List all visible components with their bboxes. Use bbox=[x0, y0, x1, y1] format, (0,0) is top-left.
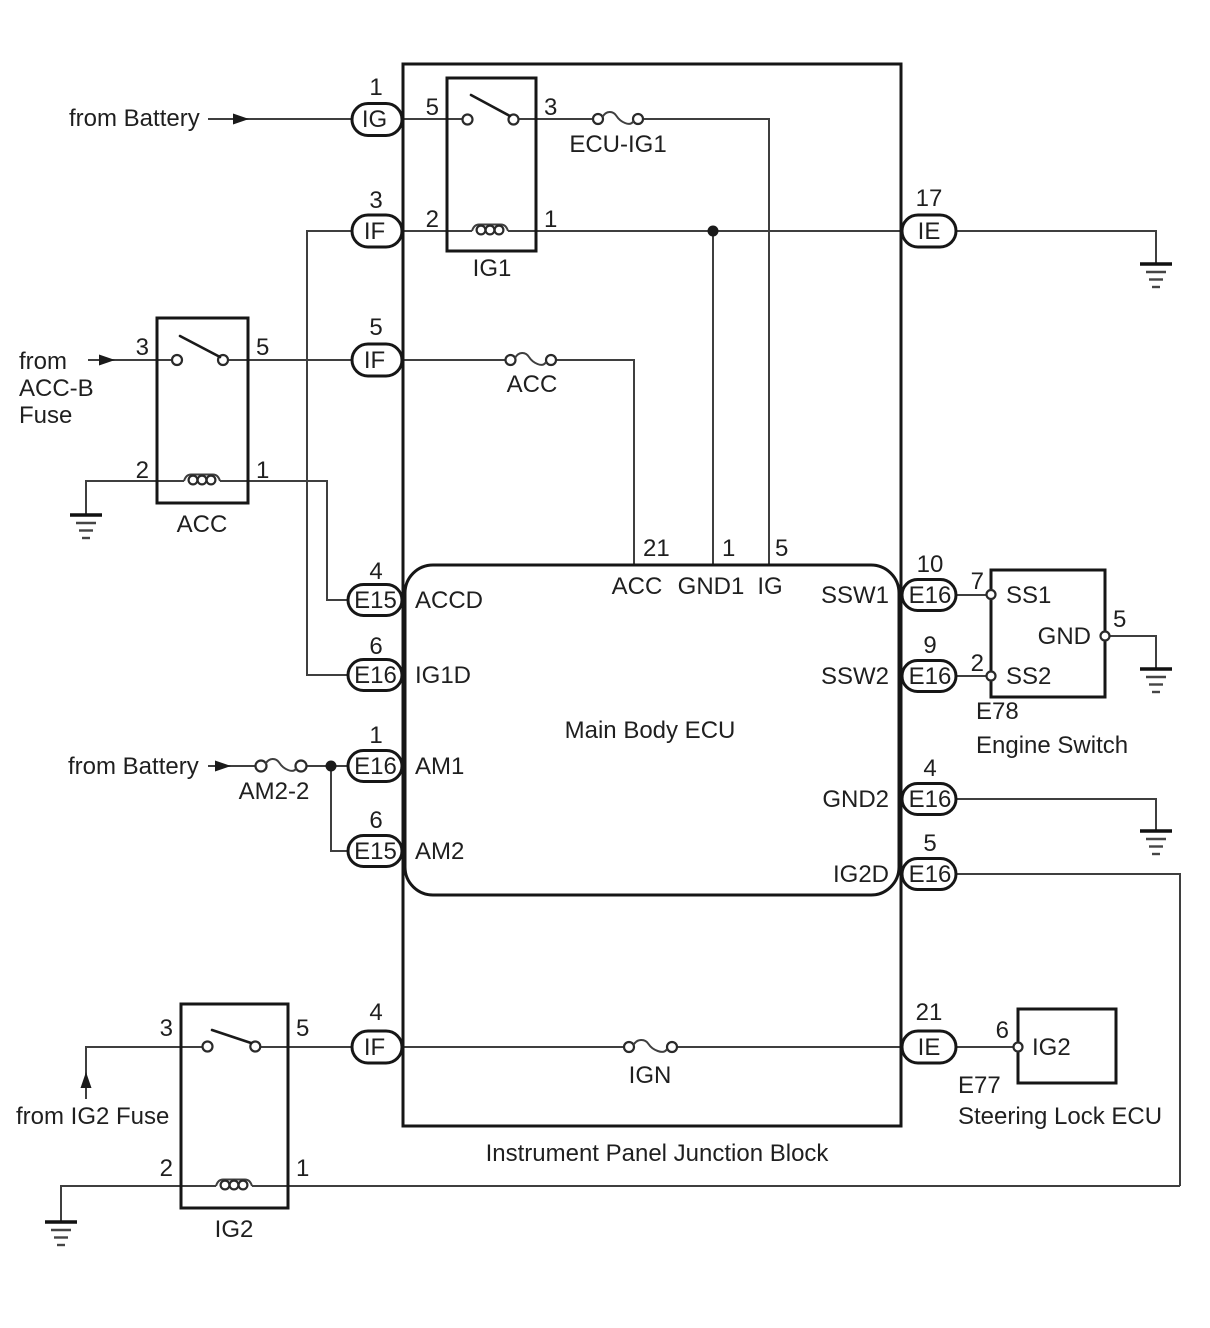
wire: IE(17) to ground bbox=[956, 231, 1156, 264]
svg-text:IF: IF bbox=[364, 218, 385, 245]
svg-text:Engine Switch: Engine Switch bbox=[976, 732, 1128, 759]
svg-text:2: 2 bbox=[971, 650, 984, 677]
svg-text:1: 1 bbox=[369, 74, 382, 101]
connector oval E16 pin 4 (GND2) bbox=[902, 755, 956, 815]
Instrument Panel Junction Block outline bbox=[403, 64, 901, 1126]
svg-text:IG: IG bbox=[362, 106, 387, 133]
svg-text:Steering Lock ECU: Steering Lock ECU bbox=[958, 1103, 1162, 1130]
svg-text:3: 3 bbox=[544, 94, 557, 121]
svg-text:2: 2 bbox=[160, 1155, 173, 1182]
connector oval E15 pin 6 (AM2) bbox=[348, 807, 402, 867]
svg-text:E15: E15 bbox=[354, 587, 397, 614]
relay ACC contact circles bbox=[172, 355, 182, 365]
relay ACC box bbox=[157, 318, 248, 503]
svg-text:from IG2 Fuse: from IG2 Fuse bbox=[16, 1103, 169, 1130]
svg-text:IG1D: IG1D bbox=[415, 662, 471, 689]
connector oval IE pin 21 bbox=[902, 999, 956, 1063]
connector oval IF pin 5 bbox=[352, 314, 402, 376]
svg-text:ACC: ACC bbox=[177, 511, 228, 538]
svg-text:3: 3 bbox=[136, 334, 149, 361]
svg-text:6: 6 bbox=[996, 1017, 1009, 1044]
fuse ECU-IG1 bbox=[569, 112, 666, 158]
svg-text:ACC: ACC bbox=[507, 371, 558, 398]
wire: fuse IGN to IE(21) oval bbox=[678, 1046, 904, 1048]
connector oval E16 pin 6 (IG1D) bbox=[348, 633, 402, 691]
svg-text:21: 21 bbox=[643, 535, 670, 562]
svg-text:Instrument Panel Junction Bloc: Instrument Panel Junction Block bbox=[486, 1140, 830, 1167]
svg-text:4: 4 bbox=[923, 755, 936, 782]
connector oval IF pin 3 bbox=[352, 187, 402, 247]
Main Body ECU outline bbox=[405, 565, 899, 895]
connector oval E16 pin 10 (SSW1) bbox=[902, 551, 956, 611]
svg-text:1: 1 bbox=[369, 722, 382, 749]
svg-text:E77: E77 bbox=[958, 1072, 1001, 1099]
fuse AM2-2 bbox=[239, 759, 310, 805]
ground under ACC relay bbox=[70, 515, 102, 538]
wire: E78 GND pin 5 to ground bbox=[1110, 636, 1156, 669]
relay ACC coil bbox=[184, 475, 220, 485]
svg-text:1: 1 bbox=[544, 206, 557, 233]
svg-text:21: 21 bbox=[916, 999, 943, 1026]
svg-text:AM1: AM1 bbox=[415, 753, 464, 780]
wire: IF(5) oval to fuse ACC bbox=[403, 359, 506, 361]
svg-text:2: 2 bbox=[136, 457, 149, 484]
svg-text:5: 5 bbox=[426, 94, 439, 121]
relay IG2 switch blade bbox=[212, 1030, 251, 1043]
svg-text:E16: E16 bbox=[909, 663, 952, 690]
ground under IG2 relay bbox=[45, 1222, 77, 1245]
connector oval IG pin 1 bbox=[352, 74, 402, 136]
connector oval E15 pin 4 (ACCD) bbox=[348, 558, 402, 616]
svg-text:IE: IE bbox=[918, 1034, 941, 1061]
svg-text:1: 1 bbox=[256, 457, 269, 484]
wire: GND1 vertical to ECU top bbox=[712, 231, 714, 564]
svg-text:ACC-B: ACC-B bbox=[19, 375, 94, 402]
wire: branch to E15 AM2 bbox=[331, 766, 348, 851]
connector oval IE pin 17 bbox=[902, 185, 956, 247]
E77 Steering Lock ECU box bbox=[958, 1009, 1162, 1130]
svg-text:4: 4 bbox=[369, 558, 382, 585]
svg-text:5: 5 bbox=[923, 830, 936, 857]
svg-text:6: 6 bbox=[369, 807, 382, 834]
wire: fuse ECU-IG1 to IG net corner, down to ECU pin IG bbox=[643, 119, 769, 564]
svg-text:ECU-IG1: ECU-IG1 bbox=[569, 131, 666, 158]
svg-text:E16: E16 bbox=[909, 582, 952, 609]
connector oval IF pin 4 (bottom) bbox=[352, 999, 402, 1063]
E78 Engine Switch box bbox=[971, 568, 1128, 759]
ground after E78 GND bbox=[1140, 669, 1172, 692]
wire: IF(3) oval left to IG1D E16 bbox=[307, 231, 352, 675]
svg-text:6: 6 bbox=[369, 633, 382, 660]
wire: IG1 contact 3 to fuse ECU-IG1 bbox=[519, 118, 594, 120]
svg-text:2: 2 bbox=[426, 206, 439, 233]
svg-text:7: 7 bbox=[971, 568, 984, 595]
svg-text:9: 9 bbox=[923, 632, 936, 659]
fuse ACC bbox=[506, 353, 558, 398]
wire: from ACC-B Fuse to ACC relay contact 3 bbox=[88, 359, 172, 361]
svg-text:IG1: IG1 bbox=[473, 255, 512, 282]
relay IG2 box bbox=[181, 1004, 288, 1208]
wire: fuse ACC to ECU pin ACC (21) bbox=[556, 360, 634, 564]
wire: IG2D E16 to IG2 relay coil pin 1 bbox=[956, 874, 1180, 1186]
wire: SSW2 E16 to E78 pin 2 bbox=[956, 675, 987, 677]
svg-text:5: 5 bbox=[775, 535, 788, 562]
wire: IF(3) oval to IG1 coil pin 2 bbox=[403, 230, 472, 232]
relay IG1 coil bbox=[472, 225, 508, 235]
svg-text:SSW1: SSW1 bbox=[821, 582, 889, 609]
svg-text:E16: E16 bbox=[909, 861, 952, 888]
node: junction dot GND1 bbox=[708, 226, 719, 237]
ground after IE(17) bbox=[1140, 264, 1172, 287]
wire: IG1 coil pin 1 to IE(17) oval bbox=[508, 230, 903, 232]
wire: IG oval to IG1 relay contact 5 bbox=[403, 118, 463, 120]
svg-text:5: 5 bbox=[1113, 606, 1126, 633]
wire: ACC coil pin 2 to ground bbox=[86, 481, 184, 515]
svg-text:ACC: ACC bbox=[612, 573, 663, 600]
wire: IG2 coil pin 1 to IG2D net bbox=[252, 1185, 1180, 1187]
svg-text:E15: E15 bbox=[354, 838, 397, 865]
arrow up from IG2 Fuse bbox=[81, 1072, 92, 1088]
svg-text:from: from bbox=[19, 348, 67, 375]
svg-text:ACCD: ACCD bbox=[415, 587, 483, 614]
svg-text:IGN: IGN bbox=[629, 1062, 672, 1089]
svg-text:3: 3 bbox=[160, 1015, 173, 1042]
connector oval E16 pin 9 (SSW2) bbox=[902, 632, 956, 692]
wire: IG2 coil pin 2 to ground bbox=[61, 1186, 216, 1222]
ground after GND2 bbox=[1140, 831, 1172, 854]
svg-text:5: 5 bbox=[256, 334, 269, 361]
svg-text:IG2D: IG2D bbox=[833, 861, 889, 888]
svg-text:10: 10 bbox=[917, 551, 944, 578]
wire: ACC contact 5 to IF(5) oval bbox=[228, 359, 352, 361]
node: junction dot AM1 bbox=[326, 761, 337, 772]
svg-text:GND1: GND1 bbox=[678, 573, 745, 600]
svg-text:17: 17 bbox=[916, 185, 943, 212]
arrow into AM2-2 fuse bbox=[215, 761, 231, 772]
relay IG1 switch blade bbox=[471, 95, 510, 116]
arrow into ACC relay bbox=[99, 355, 115, 366]
svg-text:SSW2: SSW2 bbox=[821, 663, 889, 690]
svg-text:4: 4 bbox=[369, 999, 382, 1026]
wire: from IG2 Fuse to IG2 relay contact 3 bbox=[86, 1047, 203, 1099]
svg-text:IG2: IG2 bbox=[1032, 1034, 1071, 1061]
svg-text:IE: IE bbox=[918, 218, 941, 245]
relay IG1 contact circles bbox=[463, 115, 473, 125]
svg-text:IG: IG bbox=[757, 573, 782, 600]
wire: SSW1 E16 to E78 pin 7 bbox=[956, 594, 987, 596]
svg-text:IF: IF bbox=[364, 347, 385, 374]
svg-text:AM2: AM2 bbox=[415, 838, 464, 865]
svg-text:E16: E16 bbox=[354, 753, 397, 780]
wire: IE(21) to E77 pin 6 bbox=[956, 1046, 1014, 1048]
svg-text:E16: E16 bbox=[354, 662, 397, 689]
fuse IGN bbox=[624, 1040, 677, 1089]
wire: from Battery to fuse AM2-2 bbox=[208, 765, 256, 767]
svg-text:AM2-2: AM2-2 bbox=[239, 778, 310, 805]
connector oval E16 pin 5 (IG2D) bbox=[902, 830, 956, 890]
wire: from Battery to IG oval bbox=[208, 118, 352, 120]
svg-text:Fuse: Fuse bbox=[19, 402, 72, 429]
svg-text:1: 1 bbox=[722, 535, 735, 562]
svg-text:IG2: IG2 bbox=[215, 1216, 254, 1243]
wire: fuse AM2-2 to E16 AM1 bbox=[307, 765, 349, 767]
relay ACC switch blade bbox=[180, 336, 220, 357]
relay IG1 box bbox=[447, 78, 536, 251]
svg-text:IF: IF bbox=[364, 1034, 385, 1061]
svg-text:GND2: GND2 bbox=[822, 786, 889, 813]
arrow into IG bbox=[233, 114, 249, 125]
relay IG2 contact circles bbox=[203, 1042, 213, 1052]
connector oval E16 pin 1 (AM1) bbox=[348, 722, 402, 782]
svg-text:3: 3 bbox=[369, 187, 382, 214]
wire: GND2 E16 to ground bbox=[956, 799, 1156, 831]
svg-text:5: 5 bbox=[296, 1015, 309, 1042]
svg-text:Main Body ECU: Main Body ECU bbox=[565, 717, 736, 744]
svg-text:5: 5 bbox=[369, 314, 382, 341]
wire: IF(4) oval to fuse IGN bbox=[403, 1046, 624, 1048]
svg-text:E16: E16 bbox=[909, 786, 952, 813]
svg-text:GND: GND bbox=[1038, 623, 1091, 650]
svg-text:SS1: SS1 bbox=[1006, 582, 1051, 609]
wire: ACC coil pin 1 to E15 ACCD bbox=[220, 481, 347, 600]
svg-text:from Battery: from Battery bbox=[68, 753, 199, 780]
svg-text:from Battery: from Battery bbox=[69, 105, 200, 132]
svg-text:1: 1 bbox=[296, 1155, 309, 1182]
relay IG2 coil bbox=[216, 1180, 252, 1190]
svg-text:SS2: SS2 bbox=[1006, 663, 1051, 690]
wire: IG2 contact 5 to IF(4) oval bbox=[260, 1046, 352, 1048]
svg-text:E78: E78 bbox=[976, 698, 1019, 725]
